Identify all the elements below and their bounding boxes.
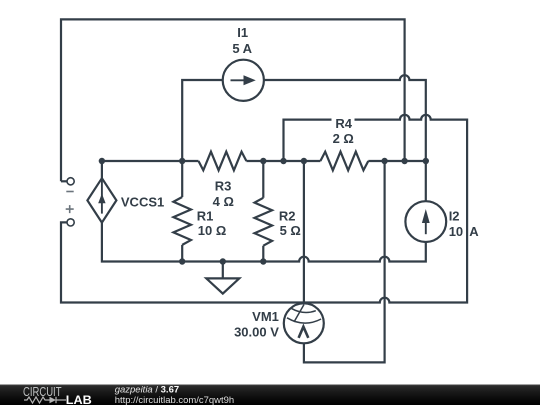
resistor R2: [255, 161, 273, 262]
current source I2: [405, 201, 446, 242]
node ground junction: [220, 258, 226, 264]
logo squiggle resistor-diode: [24, 397, 66, 403]
wire bottom-left from + terminal down, across bottom, up right side, back along bypass to rail: [61, 115, 467, 303]
node I1/I2 junction: [423, 158, 429, 164]
svg-text:LAB: LAB: [66, 395, 92, 405]
node VM1 minus junction: [381, 158, 387, 164]
wire main rail y=161 segment VCCS to R3: [102, 160, 199, 162]
wire I2 top stem: [425, 161, 427, 201]
svg-text:R4: R4: [335, 116, 352, 131]
wire top loop from control terminal up, across top, down to rail: [61, 19, 405, 181]
node bypass junction: [280, 158, 286, 164]
node VM1 plus junction: [301, 158, 307, 164]
wire main rail y=161 segment R3 to R4: [246, 160, 320, 162]
svg-text:4 Ω: 4 Ω: [213, 194, 234, 209]
svg-text:10 A: 10 A: [449, 224, 480, 239]
svg-text:R3: R3: [215, 178, 232, 193]
svg-text:5 Ω: 5 Ω: [280, 223, 301, 238]
svg-text:I2: I2: [449, 209, 460, 224]
svg-text:I1: I1: [237, 25, 248, 40]
node top loop junction: [401, 158, 407, 164]
resistor R3: [199, 152, 247, 171]
terminal control minus: [61, 180, 67, 182]
svg-text:R1: R1: [197, 209, 214, 224]
current source I1: [223, 60, 264, 101]
label R4 with white backing: [332, 118, 355, 129]
ground: [206, 262, 239, 294]
svg-text:R2: R2: [279, 209, 296, 224]
wire I1 right lead with hop, down to rail: [264, 75, 426, 161]
svg-text:10 Ω: 10 Ω: [198, 223, 227, 238]
wire bottom rail with hops and I2 bottom stem: [102, 223, 426, 262]
svg-text:2 Ω: 2 Ω: [333, 131, 354, 146]
wire VM1 minus path down right and up to rail: [304, 161, 385, 362]
terminal control plus: [67, 219, 74, 226]
resistor R1: [173, 161, 191, 262]
svg-text:30.00 V: 30.00 V: [234, 324, 279, 339]
svg-text:http://circuitlab.com/c7qwt9h: http://circuitlab.com/c7qwt9h: [115, 395, 235, 405]
VCCS1 dependent source diamond: [87, 161, 116, 223]
svg-text:VCCS1: VCCS1: [121, 195, 164, 210]
svg-text:gazpeitia / 3.67: gazpeitia / 3.67: [115, 384, 179, 395]
node R2 bottom: [260, 258, 266, 264]
svg-text:VM1: VM1: [252, 309, 279, 324]
node R2 top: [260, 158, 266, 164]
wire I1 left lead down to rail: [182, 80, 223, 161]
node R1 bottom: [179, 258, 185, 264]
node VCCS top: [99, 158, 105, 164]
resistor R4: [320, 152, 368, 171]
svg-text:5 A: 5 A: [232, 41, 252, 56]
wire main rail y=161 segment R4 to right end: [368, 160, 427, 162]
label minus control: [66, 191, 73, 193]
voltmeter VM1: [284, 303, 324, 343]
node dots on rail and bottom rail: [99, 158, 429, 265]
wire VM1 plus vertical from rail: [303, 161, 305, 303]
node R1/R3/I1 junction: [179, 158, 185, 164]
label plus control: [66, 205, 74, 213]
